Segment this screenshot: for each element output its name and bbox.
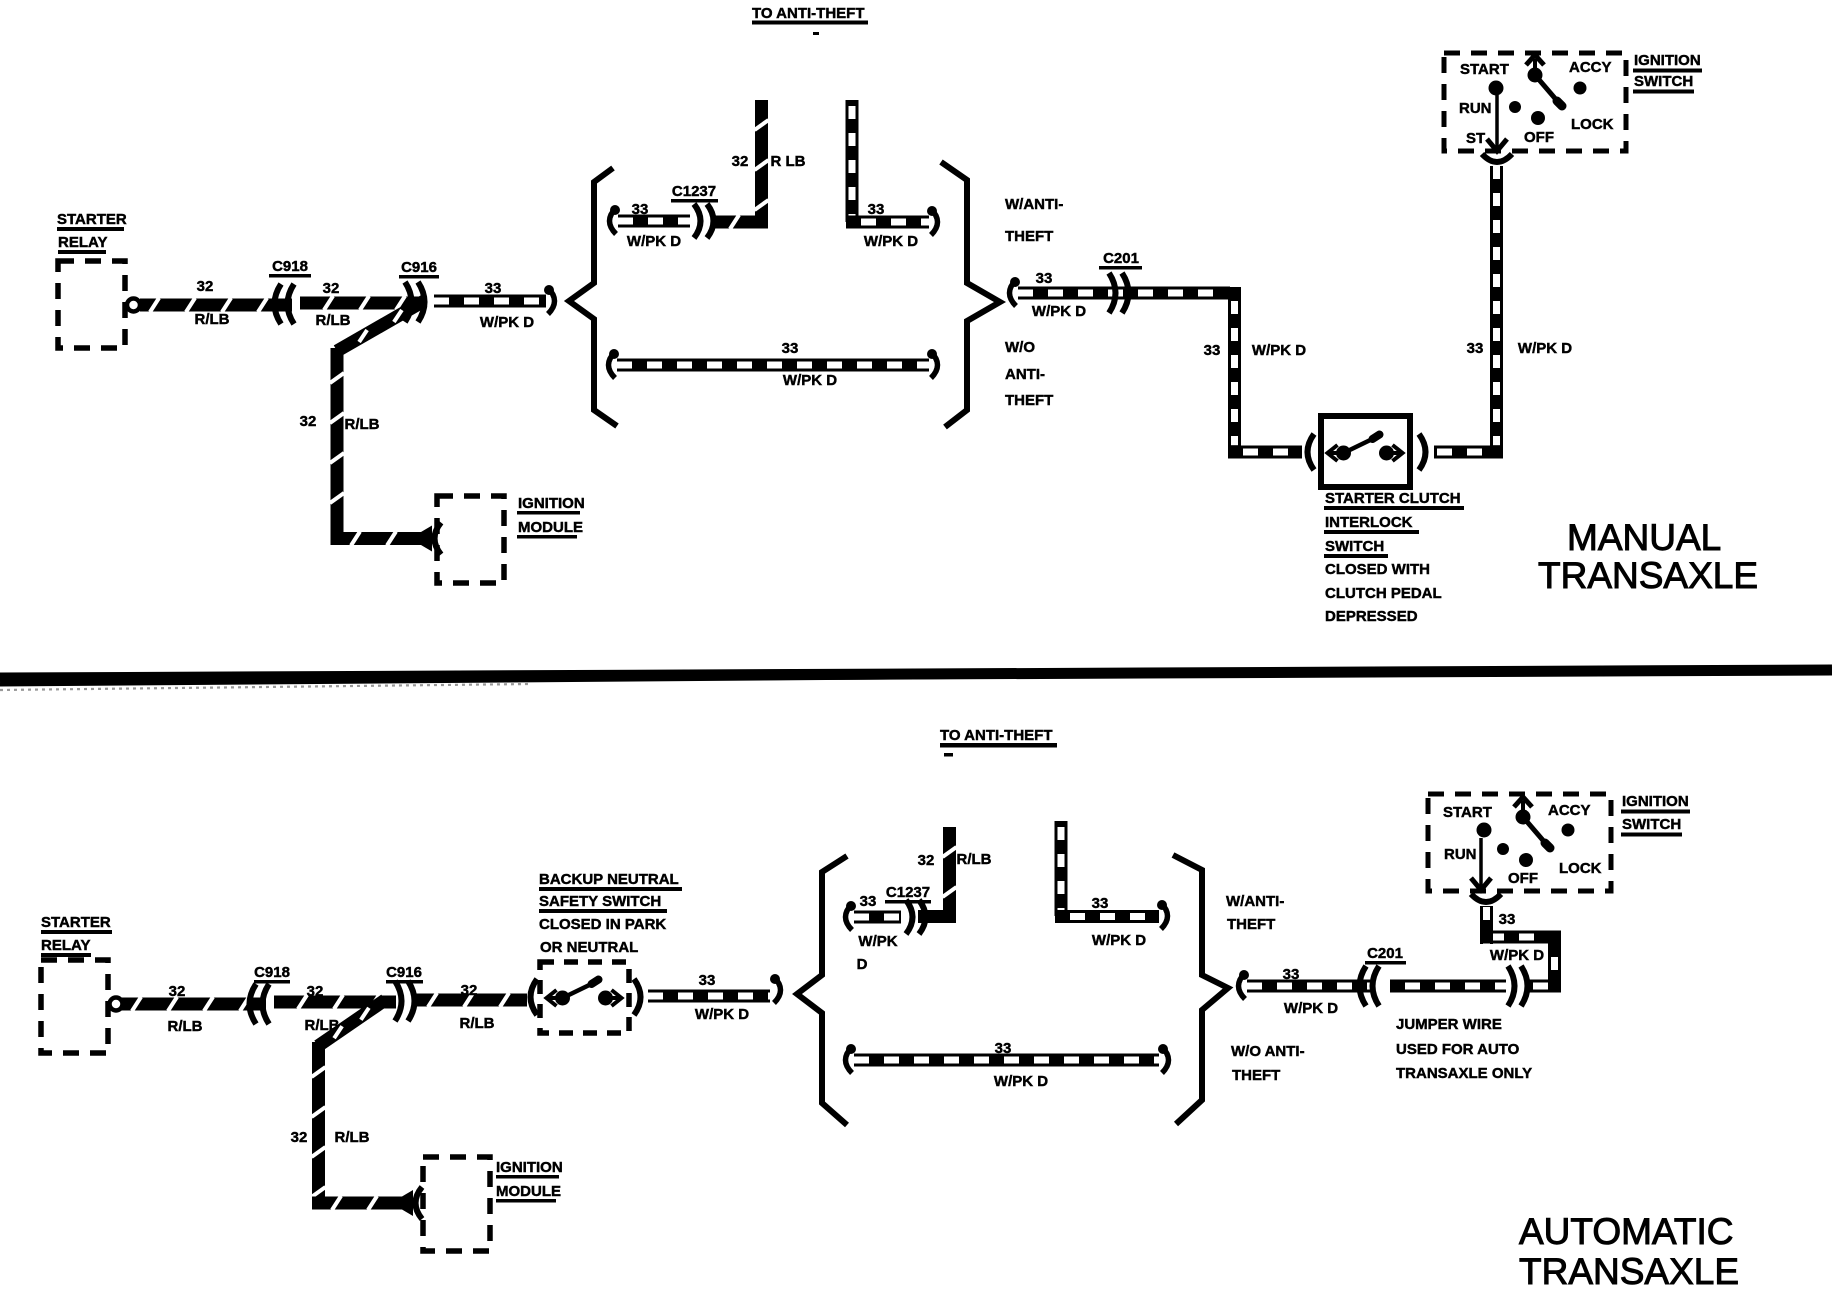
- wire 33 from interlock to ignition switch: horizontal: [1434, 446, 1503, 459]
- jumper wire vertical to upper corner: [1548, 943, 1561, 986]
- svg-text:ACCY: ACCY: [1569, 59, 1612, 76]
- svg-text:W/ANTI-: W/ANTI-: [1226, 893, 1284, 910]
- svg-text:TO ANTI-THEFT: TO ANTI-THEFT: [752, 5, 865, 22]
- svg-text:R/LB: R/LB: [316, 312, 351, 329]
- ignition switch bottom connector cup (auto): [1471, 894, 1501, 902]
- svg-text:W/PK D: W/PK D: [1518, 340, 1572, 357]
- output wire 33 from brace to C201 (auto): [1239, 970, 1250, 999]
- svg-text:R/LB: R/LB: [168, 1018, 203, 1035]
- wire 32 R/LB C918 to C916 (auto): [274, 995, 396, 1009]
- svg-text:STARTER: STARTER: [57, 211, 127, 228]
- left brace of options (auto): [797, 856, 847, 1125]
- svg-text:JUMPER WIRE: JUMPER WIRE: [1396, 1016, 1502, 1033]
- svg-text:MANUAL: MANUAL: [1567, 517, 1721, 558]
- wire 33 W/PK D after C916: [434, 295, 546, 308]
- svg-text:START: START: [1460, 61, 1509, 78]
- branch diagonal to ignition module (auto): [314, 995, 388, 1052]
- starter relay terminal circle (auto): [110, 998, 123, 1011]
- svg-text:32: 32: [300, 413, 317, 430]
- wire 32 R/LB to anti-theft horizontal (auto): [918, 910, 956, 923]
- svg-text:W/PK D: W/PK D: [864, 233, 918, 250]
- svg-text:MODULE: MODULE: [518, 519, 583, 536]
- interlock switch left connector arc: [1308, 434, 1315, 470]
- jumper wire 33 between connectors: [1390, 980, 1506, 993]
- svg-text:ACCY: ACCY: [1548, 802, 1591, 819]
- svg-text:W/PK D: W/PK D: [1284, 1000, 1338, 1017]
- svg-text:D: D: [857, 956, 868, 973]
- branch wire horizontal to module: [331, 532, 421, 546]
- jumper wire right connector: [1508, 966, 1528, 1006]
- svg-text:AUTOMATIC: AUTOMATIC: [1519, 1211, 1733, 1252]
- svg-text:C918: C918: [272, 258, 308, 275]
- svg-text:33: 33: [1092, 895, 1109, 912]
- svg-text:C918: C918: [254, 964, 290, 981]
- svg-text:TRANSAXLE: TRANSAXLE: [1519, 1251, 1739, 1292]
- interlock switch contacts symbol: [1328, 435, 1403, 462]
- ignition switch box (auto): [1428, 794, 1611, 891]
- svg-text:33: 33: [868, 201, 885, 218]
- starter relay box (auto): [41, 960, 108, 1053]
- w/anti-theft wire 33 left segment (auto): [846, 901, 857, 930]
- section divider bar: [0, 670, 1832, 690]
- svg-text:W/ANTI-: W/ANTI-: [1005, 196, 1063, 213]
- wire 32 R LB to anti-theft: vertical: [755, 100, 769, 228]
- svg-text:33: 33: [860, 893, 877, 910]
- svg-text:C201: C201: [1367, 945, 1403, 962]
- svg-text:32: 32: [291, 1129, 308, 1146]
- svg-text:W/PK D: W/PK D: [480, 314, 534, 331]
- starter relay box: [58, 261, 125, 348]
- svg-text:C1237: C1237: [886, 884, 930, 901]
- svg-text:ST: ST: [1466, 130, 1485, 147]
- wire end hook into brace (auto): [770, 974, 781, 1003]
- w/anti-theft wire 33 left segment: [610, 205, 621, 234]
- svg-text:W/PK D: W/PK D: [695, 1006, 749, 1023]
- w/anti-theft wire 33 right horizontal (auto): [1055, 910, 1159, 923]
- backup switch right connector arc: [634, 979, 641, 1015]
- svg-text:R/LB: R/LB: [460, 1015, 495, 1032]
- svg-text:W/PK D: W/PK D: [994, 1073, 1048, 1090]
- svg-text:33: 33: [1204, 342, 1221, 359]
- svg-text:STARTER CLUTCH: STARTER CLUTCH: [1325, 490, 1461, 507]
- module connector: [421, 523, 441, 555]
- svg-text:THEFT: THEFT: [1005, 228, 1053, 245]
- right wire end hook (auto): [1157, 900, 1168, 929]
- w/anti-theft wire 33 right horizontal: [846, 216, 929, 229]
- svg-text:CLUTCH PEDAL: CLUTCH PEDAL: [1325, 585, 1442, 602]
- svg-text:SWITCH: SWITCH: [1325, 538, 1384, 555]
- svg-text:33: 33: [1036, 270, 1053, 287]
- svg-text:W/O: W/O: [1005, 339, 1035, 356]
- svg-text:W/PK D: W/PK D: [1490, 947, 1544, 964]
- svg-text:33: 33: [485, 280, 502, 297]
- backup switch contacts symbol: [547, 980, 622, 1007]
- wire 32 R/LB C918 to C916: [300, 296, 420, 310]
- right brace of options (auto): [1173, 855, 1228, 1124]
- wire 33 W/PK D after backup switch: [648, 990, 770, 1003]
- svg-text:C201: C201: [1103, 250, 1139, 267]
- branch wire vertical: [330, 348, 344, 545]
- svg-text:STARTER: STARTER: [41, 914, 111, 931]
- svg-text:CLOSED IN PARK: CLOSED IN PARK: [539, 916, 666, 933]
- svg-text:R LB: R LB: [771, 153, 806, 170]
- wire 33 horizontal into interlock switch: [1228, 446, 1302, 459]
- wire 32 R/LB relay to C918 (auto): [122, 997, 266, 1011]
- svg-text:W/O ANTI-: W/O ANTI-: [1231, 1043, 1305, 1060]
- svg-text:33: 33: [1499, 911, 1516, 928]
- svg-text:CLOSED WITH: CLOSED WITH: [1325, 561, 1430, 578]
- svg-text:32: 32: [307, 983, 324, 1000]
- wire 32 R LB to anti-theft: horizontal: [712, 215, 768, 229]
- svg-text:RUN: RUN: [1459, 100, 1492, 117]
- ignition switch ST arrow (manual): [1487, 95, 1507, 151]
- svg-text:R/LB: R/LB: [335, 1129, 370, 1146]
- svg-text:TRANSAXLE: TRANSAXLE: [1538, 555, 1758, 596]
- svg-text:32: 32: [169, 983, 186, 1000]
- wire 33 vertical to ignition switch (auto): [1480, 906, 1493, 944]
- svg-text:IGNITION: IGNITION: [496, 1159, 563, 1176]
- svg-text:C916: C916: [401, 259, 437, 276]
- svg-text:C916: C916: [386, 964, 422, 981]
- svg-text:BACKUP NEUTRAL: BACKUP NEUTRAL: [539, 871, 679, 888]
- w/o anti-theft wire 33 middle: [609, 349, 620, 378]
- svg-text:32: 32: [918, 852, 935, 869]
- svg-text:SWITCH: SWITCH: [1622, 816, 1681, 833]
- svg-text:ANTI-: ANTI-: [1005, 366, 1045, 383]
- w/o anti-theft wire 33 middle (auto): [846, 1044, 857, 1073]
- svg-text:W/PK D: W/PK D: [627, 233, 681, 250]
- svg-text:SAFETY SWITCH: SAFETY SWITCH: [539, 893, 661, 910]
- svg-text:USED FOR AUTO: USED FOR AUTO: [1396, 1041, 1520, 1058]
- backup switch left connector arc: [531, 979, 538, 1015]
- ignition switch rotary symbol (manual): [1489, 55, 1587, 125]
- wire 33 vertical down to interlock level: [1228, 293, 1241, 452]
- right wire end hook: [927, 206, 938, 235]
- svg-text:LOCK: LOCK: [1559, 860, 1602, 877]
- svg-text:W/PK D: W/PK D: [1252, 342, 1306, 359]
- svg-text:INTERLOCK: INTERLOCK: [1325, 514, 1413, 531]
- jumper wire to corner: [1526, 980, 1561, 993]
- svg-text:OFF: OFF: [1524, 129, 1554, 146]
- svg-text:33: 33: [995, 1040, 1012, 1057]
- svg-text:LOCK: LOCK: [1571, 116, 1614, 133]
- svg-text:33: 33: [1467, 340, 1484, 357]
- wire 32 R/LB C916 to backup switch: [412, 993, 527, 1007]
- svg-text:RELAY: RELAY: [41, 937, 90, 954]
- interlock switch right connector arc: [1419, 434, 1426, 470]
- branch wire 32 R/LB diagonal to ignition module: [334, 295, 427, 356]
- ignition module box (manual): [437, 496, 504, 583]
- wire 33 vertical up to ignition switch: [1490, 166, 1503, 452]
- svg-text:R/LB: R/LB: [195, 311, 230, 328]
- ignition switch ST arrow (auto): [1471, 838, 1491, 890]
- svg-text:W/PK D: W/PK D: [1092, 932, 1146, 949]
- svg-text:MODULE: MODULE: [496, 1183, 561, 1200]
- svg-text:R/LB: R/LB: [345, 416, 380, 433]
- backup neutral safety switch box: [540, 962, 629, 1033]
- svg-text:R/LB: R/LB: [957, 851, 992, 868]
- wire 32 R/LB to anti-theft vertical (auto): [943, 827, 957, 922]
- svg-text:RUN: RUN: [1444, 846, 1477, 863]
- starter relay terminal circle: [127, 299, 140, 312]
- left brace of options (manual): [569, 168, 617, 426]
- wire end hook into brace: [544, 285, 555, 314]
- right brace of options (manual): [941, 162, 1000, 427]
- svg-text:IGNITION: IGNITION: [1622, 793, 1689, 810]
- svg-text:32: 32: [197, 278, 214, 295]
- wire 33 horizontal below ignition (auto): [1480, 931, 1561, 944]
- output wire 33 from brace to C201: [1010, 277, 1021, 306]
- svg-text:IGNITION: IGNITION: [1634, 52, 1701, 69]
- svg-text:IGNITION: IGNITION: [518, 495, 585, 512]
- ignition switch box (manual): [1444, 53, 1626, 151]
- w/anti-theft wire 33 right vertical (auto): [1055, 821, 1068, 916]
- svg-text:W/PK: W/PK: [858, 933, 897, 950]
- svg-text:TO ANTI-THEFT: TO ANTI-THEFT: [940, 727, 1053, 744]
- svg-text:33: 33: [699, 972, 716, 989]
- ignition module box (auto): [423, 1157, 490, 1251]
- svg-text:DEPRESSED: DEPRESSED: [1325, 608, 1418, 625]
- svg-text:33: 33: [1283, 966, 1300, 983]
- module connector (auto): [402, 1187, 422, 1219]
- svg-text:32: 32: [323, 280, 340, 297]
- svg-text:OFF: OFF: [1508, 870, 1538, 887]
- svg-text:THEFT: THEFT: [1227, 916, 1275, 933]
- svg-text:RELAY: RELAY: [58, 234, 107, 251]
- svg-text:SWITCH: SWITCH: [1634, 73, 1693, 90]
- svg-text:32: 32: [732, 153, 749, 170]
- w/anti-theft wire 33 right vertical from anti-theft: [846, 100, 859, 222]
- svg-text:33: 33: [632, 201, 649, 218]
- wire 32 R/LB relay to C918: [140, 298, 292, 312]
- svg-text:W/PK D: W/PK D: [783, 372, 837, 389]
- svg-text:START: START: [1443, 804, 1492, 821]
- ignition switch bottom connector cup (manual): [1482, 154, 1512, 162]
- svg-text:C1237: C1237: [672, 183, 716, 200]
- svg-text:32: 32: [461, 982, 478, 999]
- starter clutch interlock switch box: [1321, 416, 1410, 487]
- svg-text:THEFT: THEFT: [1005, 392, 1053, 409]
- ignition switch rotary symbol (auto): [1477, 797, 1575, 867]
- svg-text:THEFT: THEFT: [1232, 1067, 1280, 1084]
- svg-text:W/PK D: W/PK D: [1032, 303, 1086, 320]
- branch vertical (auto): [312, 1042, 326, 1209]
- svg-text:TRANSAXLE ONLY: TRANSAXLE ONLY: [1396, 1065, 1532, 1082]
- branch horizontal to module (auto): [312, 1196, 402, 1210]
- svg-text:OR NEUTRAL: OR NEUTRAL: [540, 939, 638, 956]
- svg-text:33: 33: [782, 340, 799, 357]
